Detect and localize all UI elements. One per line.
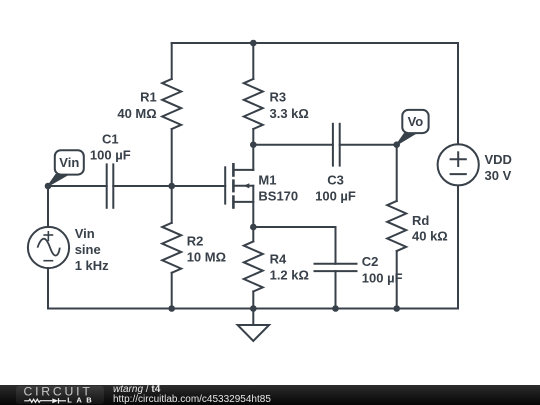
svg-text:R3: R3 [270, 90, 287, 105]
svg-text:100 µF: 100 µF [362, 270, 403, 285]
svg-text:10 MΩ: 10 MΩ [187, 250, 226, 265]
svg-text:R2: R2 [187, 233, 204, 248]
svg-text:100 µF: 100 µF [90, 148, 131, 163]
svg-text:M1: M1 [258, 172, 276, 187]
svg-text:3.3 kΩ: 3.3 kΩ [270, 106, 309, 121]
svg-text:VDD: VDD [485, 152, 512, 167]
svg-text:1.2 kΩ: 1.2 kΩ [270, 267, 309, 282]
svg-text:Vin: Vin [75, 226, 95, 241]
svg-text:BS170: BS170 [258, 188, 298, 203]
svg-text:40 kΩ: 40 kΩ [412, 229, 448, 244]
svg-text:sine: sine [75, 242, 101, 257]
svg-text:R1: R1 [140, 90, 157, 105]
svg-text:1 kHz: 1 kHz [75, 258, 109, 273]
svg-text:R4: R4 [270, 251, 287, 266]
svg-text:40 MΩ: 40 MΩ [117, 106, 156, 121]
svg-text:C3: C3 [327, 172, 344, 187]
svg-text:C1: C1 [102, 132, 119, 147]
svg-text:http://circuitlab.com/c4533295: http://circuitlab.com/c45332954ht85 [113, 394, 271, 405]
svg-text:C2: C2 [362, 254, 379, 269]
svg-text:Rd: Rd [412, 213, 429, 228]
svg-text:Vin: Vin [59, 155, 79, 170]
svg-text:Vo: Vo [408, 114, 424, 129]
svg-text:LAB: LAB [67, 396, 92, 405]
svg-text:30 V: 30 V [485, 168, 512, 183]
svg-text:100 µF: 100 µF [315, 188, 356, 203]
